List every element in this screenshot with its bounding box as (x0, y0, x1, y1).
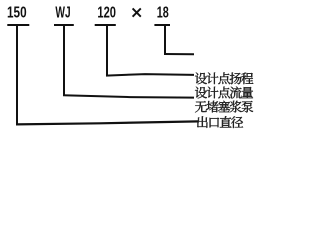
svg-text:18: 18 (157, 5, 169, 22)
svg-text:120: 120 (97, 5, 116, 22)
svg-text:WJ: WJ (55, 5, 70, 22)
svg-text:150: 150 (7, 5, 27, 22)
